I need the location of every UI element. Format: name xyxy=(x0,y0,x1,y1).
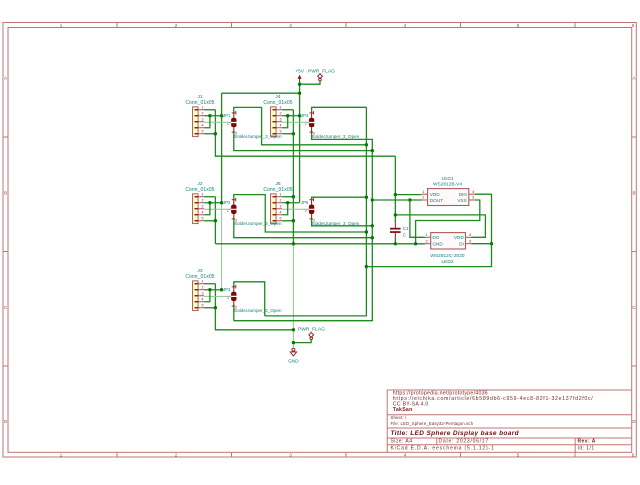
svg-text:J5: J5 xyxy=(275,181,280,187)
wire +5V stem xyxy=(299,82,301,94)
wire select bus A vertical xyxy=(265,107,367,316)
svg-text:SolderJumper_3_Open: SolderJumper_3_Open xyxy=(234,221,282,226)
wire J2 pin4 link xyxy=(204,203,210,215)
svg-text:6: 6 xyxy=(632,23,635,28)
connector J4 Conn_01x05 xyxy=(263,94,292,137)
wire JP3 bottom xyxy=(233,306,235,321)
svg-text:3: 3 xyxy=(280,117,282,121)
wire J2 pin1-pin5 chain to GND rail xyxy=(214,197,216,244)
wire PWR_FLAG bottom link xyxy=(293,340,311,343)
solder jumper JP4 SolderJumper_3_Open xyxy=(301,111,360,139)
svg-text:KiCad E.D.A. eeschema (5.1.12: KiCad E.D.A. eeschema (5.1.12)-1 xyxy=(391,446,495,452)
svg-text:JP2: JP2 xyxy=(223,200,231,205)
wire JP3 top link xyxy=(234,282,265,316)
wire J2 pin3 to JP2 middle xyxy=(204,208,231,210)
svg-text:JP4: JP4 xyxy=(301,113,309,118)
svg-text:JP1: JP1 xyxy=(223,113,231,118)
svg-text:SolderJumper_3_Open: SolderJumper_3_Open xyxy=(234,308,282,313)
svg-text:5: 5 xyxy=(280,216,282,220)
svg-text:Conn_01x05: Conn_01x05 xyxy=(263,187,292,193)
junction bus B JP1 xyxy=(371,149,374,152)
wire J5 pin2 to +5V xyxy=(282,202,300,204)
wire J1 pin1-pin5 chain vertical to VDD run xyxy=(215,110,395,156)
svg-text:3: 3 xyxy=(280,204,282,208)
wire J4 pin5 xyxy=(282,133,293,135)
wire +5V drop right to J4 J5 pin2 xyxy=(299,93,301,203)
svg-text:5: 5 xyxy=(202,303,204,307)
svg-text:1: 1 xyxy=(280,192,282,196)
svg-text:3: 3 xyxy=(289,453,292,458)
svg-text:D: D xyxy=(632,419,636,424)
junction J3 pin5 xyxy=(214,306,217,309)
wire GND long vertical xyxy=(292,110,294,244)
svg-text:4: 4 xyxy=(404,453,407,458)
junction J1 pin2 a xyxy=(208,114,211,117)
svg-text:5: 5 xyxy=(202,129,204,133)
wire C1 bottom to GND rail xyxy=(394,238,396,244)
wire J3 pin2 to +5V xyxy=(204,289,222,291)
junction DOUT branch xyxy=(408,198,411,201)
svg-text:3: 3 xyxy=(202,204,204,208)
svg-text:Title: LED Sphere Display base: Title: LED Sphere Display base board xyxy=(391,430,520,437)
wire J2 pin5 xyxy=(204,220,215,222)
wire VDD vertical xyxy=(394,156,396,223)
svg-text:Date: 2023/06/17: Date: 2023/06/17 xyxy=(439,439,489,445)
svg-text:2: 2 xyxy=(202,198,204,202)
connector J2 Conn_01x05 xyxy=(185,181,214,224)
svg-text:GND: GND xyxy=(432,242,443,247)
solder jumper JP1 SolderJumper_3_Open xyxy=(223,111,282,139)
connector J1 Conn_01x05 xyxy=(185,94,214,137)
junction J2 pin5 xyxy=(214,219,217,222)
svg-text:Conn_01x05: Conn_01x05 xyxy=(185,100,214,106)
capacitor C1 xyxy=(390,223,409,238)
svg-text:Rev: A: Rev: A xyxy=(578,439,596,445)
solder jumper JP2 SolderJumper_3_Open xyxy=(223,198,282,226)
svg-text:PWR_FLAG: PWR_FLAG xyxy=(308,69,335,75)
svg-text:1: 1 xyxy=(202,279,204,283)
wire J5 pin5 xyxy=(282,220,293,222)
junction J3 GND link xyxy=(292,328,295,331)
wire J4 pin3 to JP4 middle xyxy=(282,121,309,123)
connector J5 Conn_01x05 xyxy=(263,181,292,224)
svg-text:File: LED_Sphere_Easy32-Pentag: File: LED_Sphere_Easy32-Pentagon.sch xyxy=(391,421,474,426)
power flag PWR_FLAG bottom xyxy=(298,327,325,340)
svg-text:J2: J2 xyxy=(197,181,202,187)
wire JP2 bottom xyxy=(234,219,372,238)
svg-text:J3: J3 xyxy=(197,268,202,274)
junction bus A JP2 xyxy=(365,230,368,233)
svg-text:5: 5 xyxy=(517,453,520,458)
svg-text:2: 2 xyxy=(426,238,428,243)
wire JP5 top link xyxy=(312,197,367,199)
svg-text:1: 1 xyxy=(60,453,63,458)
wire J2 pin1 to chain xyxy=(204,196,215,198)
wire J4 pin1 to GND chain xyxy=(282,109,293,111)
svg-text:C1: C1 xyxy=(403,226,409,231)
wire +5V drop left to J1 J2 J3 pin2 xyxy=(221,93,223,203)
junction DI LED2 xyxy=(490,242,493,245)
junction J2 pin2 b xyxy=(220,201,223,204)
svg-text:3: 3 xyxy=(472,195,474,200)
svg-text:4: 4 xyxy=(280,123,282,127)
wire JP1 top box xyxy=(234,107,367,144)
junction VSS GND rail xyxy=(414,242,417,245)
ground GND symbol xyxy=(288,348,299,363)
svg-text:3: 3 xyxy=(202,291,204,295)
wire J1 pin1 to chain xyxy=(204,109,215,111)
junction PWR_FLAG GND link xyxy=(292,341,295,344)
svg-text:Conn_01x05: Conn_01x05 xyxy=(263,100,292,106)
junction J2 pin2 a xyxy=(208,201,211,204)
svg-text:SolderJumper_3_Open: SolderJumper_3_Open xyxy=(234,134,282,139)
junction bus A JP5 xyxy=(365,196,368,199)
wire VDD to LED2 pin4 xyxy=(395,215,485,237)
junction bus B JP5 xyxy=(371,224,374,227)
wire J3 pin1-pin5 chain to GND link xyxy=(215,284,293,330)
svg-text:WS2812B-V4: WS2812B-V4 xyxy=(433,182,462,188)
junction J3 pin2 b xyxy=(220,288,223,291)
svg-text:B: B xyxy=(632,190,635,195)
svg-text:DI: DI xyxy=(459,242,464,247)
svg-text:1: 1 xyxy=(202,105,204,109)
junction bus A JP1 xyxy=(365,143,368,146)
svg-text:SolderJumper_3_Open: SolderJumper_3_Open xyxy=(312,134,360,139)
LED U LED1 WS2812B-V4 xyxy=(422,176,476,206)
svg-text:3: 3 xyxy=(202,117,204,121)
wire JP2 top box xyxy=(234,195,367,232)
svg-text:C: C xyxy=(4,305,8,310)
svg-text:LED1: LED1 xyxy=(442,176,454,182)
wire J3 pin1 to chain xyxy=(204,283,215,285)
svg-text:C: C xyxy=(403,232,407,237)
svg-text:JP5: JP5 xyxy=(301,200,309,205)
svg-text:2: 2 xyxy=(175,453,178,458)
junction J4 pin2 b xyxy=(298,114,301,117)
svg-text:1: 1 xyxy=(426,232,428,237)
svg-text:4: 4 xyxy=(202,210,204,214)
junction bus B JP2 xyxy=(371,236,374,239)
wire J4 pin2 to +5V xyxy=(282,115,300,117)
svg-text:TakSan: TakSan xyxy=(393,407,413,413)
svg-text:5: 5 xyxy=(202,216,204,220)
wire J3 pin3 to JP3 middle xyxy=(204,295,231,297)
svg-text:VDD: VDD xyxy=(454,235,465,240)
junction GND rail at long vertical xyxy=(292,242,295,245)
svg-text:4: 4 xyxy=(404,23,407,28)
svg-text:Conn_01x05: Conn_01x05 xyxy=(185,274,214,280)
junction VDD branch xyxy=(394,213,397,216)
svg-text:2: 2 xyxy=(280,198,282,202)
svg-text:VDD: VDD xyxy=(430,192,441,197)
svg-text:3: 3 xyxy=(469,238,471,243)
junction +5V flag xyxy=(298,83,301,86)
power symbol +5V xyxy=(295,69,305,82)
svg-text:4: 4 xyxy=(202,123,204,127)
svg-text:1: 1 xyxy=(202,192,204,196)
wire JP4 top box xyxy=(312,107,367,113)
svg-text:4: 4 xyxy=(472,189,475,194)
junction VDD LED1 xyxy=(394,193,397,196)
junction J3 pin2 a xyxy=(208,288,211,291)
svg-text:2: 2 xyxy=(202,111,204,115)
svg-text:SolderJumper_3_Open: SolderJumper_3_Open xyxy=(312,221,360,226)
wire JP1 bottom xyxy=(234,132,372,150)
svg-text:Size: A4: Size: A4 xyxy=(391,439,413,445)
svg-text:VSS: VSS xyxy=(457,198,466,203)
wire J5 pin1 xyxy=(282,196,293,198)
wire J5 pin4 link xyxy=(282,203,288,215)
solder jumper JP3 SolderJumper_3_Open xyxy=(223,285,282,313)
wire GND rail xyxy=(215,243,425,245)
svg-text:6: 6 xyxy=(632,453,635,458)
connector J3 Conn_01x05 xyxy=(185,268,214,311)
svg-text:2: 2 xyxy=(305,121,307,126)
svg-text:B: B xyxy=(4,190,7,195)
svg-text:A: A xyxy=(4,75,8,80)
svg-text:PWR_FLAG: PWR_FLAG xyxy=(298,327,325,333)
svg-text:5: 5 xyxy=(517,23,520,28)
wire J3 pin5 xyxy=(204,307,215,309)
solder jumper JP5 SolderJumper_3_Open xyxy=(301,198,360,226)
junction J1 pin5 xyxy=(214,132,217,135)
junction bus B DOUT xyxy=(371,198,374,201)
svg-text:3: 3 xyxy=(289,23,292,28)
wire VDD to LED1 pin1 xyxy=(395,194,421,196)
LED U LED2 WS2812C-2020 xyxy=(425,232,472,265)
svg-text:4: 4 xyxy=(469,232,472,237)
wire JP5 bottom xyxy=(312,219,373,226)
svg-text:2: 2 xyxy=(280,111,282,115)
svg-text:Id: 1/1: Id: 1/1 xyxy=(578,446,595,452)
wire pwr_flag link xyxy=(300,81,320,84)
wire +5V rail xyxy=(222,92,300,94)
wire LED2 DI stub xyxy=(472,243,492,245)
junction J4 pin2 a xyxy=(286,114,289,117)
svg-text:Sheet: /: Sheet: / xyxy=(391,415,407,420)
svg-text:+5V: +5V xyxy=(295,69,305,75)
svg-text:2: 2 xyxy=(227,121,229,126)
wire JP4 bottom and bus B vertical xyxy=(234,132,372,321)
wire J1 pin3 to JP1 middle xyxy=(204,121,231,123)
svg-text:4: 4 xyxy=(202,297,204,301)
svg-text:1: 1 xyxy=(60,23,63,28)
wire LED1 VSS to GND xyxy=(416,200,480,244)
wire J3 pin4 link xyxy=(204,290,210,302)
svg-text:5: 5 xyxy=(280,129,282,133)
svg-text:1: 1 xyxy=(422,189,424,194)
wire DOUT branch to LED2 DO xyxy=(410,200,425,237)
wire J4 pin4 link xyxy=(282,116,288,128)
svg-text:GND: GND xyxy=(288,358,299,363)
wire LED1 DIN to LED2 DI xyxy=(366,194,491,266)
junction C1 GND rail xyxy=(394,242,397,245)
wire J1 pin5 xyxy=(204,133,215,135)
svg-text:Conn_01x05: Conn_01x05 xyxy=(185,187,214,193)
wire DOUT LED1 pin2 xyxy=(372,199,421,201)
wire J1 pin4 link xyxy=(204,116,210,128)
svg-text:1: 1 xyxy=(280,105,282,109)
svg-text:DOUT: DOUT xyxy=(430,198,443,203)
junction J5 pin1 xyxy=(292,195,295,198)
junction J4 pin5 xyxy=(292,132,295,135)
svg-text:D: D xyxy=(4,419,8,424)
junction J1 pin2 b xyxy=(220,114,223,117)
wire J2 pin2 to +5V xyxy=(204,202,222,204)
junction J5 pin5 xyxy=(292,219,295,222)
wire J1 pin2 to +5V xyxy=(204,115,222,117)
wire J5 pin3 to JP5 middle xyxy=(282,208,309,210)
junction bus A DIN return xyxy=(365,265,368,268)
junction J5 pin2 xyxy=(286,201,289,204)
power flag PWR_FLAG top xyxy=(308,69,335,81)
svg-text:WS2812C-2020: WS2812C-2020 xyxy=(430,253,464,259)
svg-text:DIN: DIN xyxy=(459,192,467,197)
svg-text:C: C xyxy=(632,305,636,310)
svg-text:2: 2 xyxy=(202,285,204,289)
title block border xyxy=(387,390,632,452)
svg-text:LED2: LED2 xyxy=(442,259,454,265)
svg-text:J4: J4 xyxy=(275,94,280,100)
svg-text:2: 2 xyxy=(175,23,178,28)
svg-text:2: 2 xyxy=(422,195,424,200)
svg-text:JP3: JP3 xyxy=(223,287,231,292)
svg-text:J1: J1 xyxy=(197,94,202,100)
svg-text:DO: DO xyxy=(432,235,439,240)
svg-text:4: 4 xyxy=(280,210,282,214)
